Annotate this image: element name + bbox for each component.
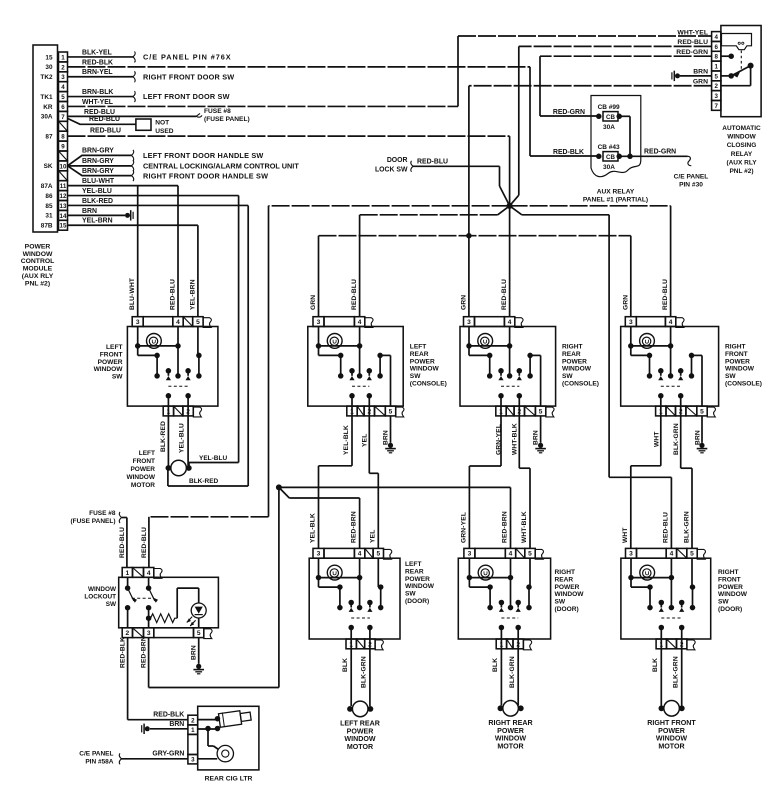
svg-text:FRONT: FRONT [725, 351, 748, 358]
wire RED-BLU fuse #8 to lockout sw pin1 [119, 512, 127, 568]
svg-text:9: 9 [61, 143, 65, 150]
svg-text:WINDOW: WINDOW [94, 366, 124, 373]
bus RED-BLU junction to RF door switch pin4 [510, 206, 672, 549]
svg-text:BLK-RED: BLK-RED [160, 421, 167, 452]
svg-text:RED-BLU: RED-BLU [141, 527, 148, 558]
svg-text:WINDOW: WINDOW [344, 735, 375, 743]
wire BRN RR console pin5 to ground [533, 416, 546, 453]
wire BRN RF console pin5 to ground [695, 416, 708, 453]
wire RED-GRN CB#43 output to C/E panel pin #30 [619, 149, 691, 166]
switch RIGHT REAR POWER WINDOW SW (CONSOLE) [460, 317, 556, 417]
svg-text:BRN: BRN [695, 430, 702, 445]
svg-text:1: 1 [715, 63, 719, 70]
svg-text:7: 7 [61, 114, 65, 121]
lockout switch LED D1 [177, 588, 206, 628]
label RIGHT FRONT DOOR SW [143, 72, 234, 81]
svg-text:5: 5 [700, 408, 704, 415]
svg-text:YEL-BRN: YEL-BRN [189, 279, 196, 310]
svg-text:3: 3 [317, 551, 321, 558]
svg-text:GRN: GRN [693, 79, 708, 86]
svg-text:BLK-GRN: BLK-GRN [509, 656, 516, 688]
svg-text:RED-BLU: RED-BLU [662, 279, 669, 310]
svg-text:4: 4 [508, 319, 512, 326]
svg-text:30A: 30A [41, 114, 53, 121]
caption LEFT REAR POWER WINDOW SW (DOOR) [405, 561, 435, 605]
svg-text:RED-BLU: RED-BLU [351, 279, 358, 310]
svg-text:3: 3 [629, 319, 633, 326]
label RED-GRN at CB#99 input [553, 109, 585, 116]
lockout switch resistor R1 [149, 614, 178, 623]
svg-text:2: 2 [61, 64, 65, 71]
svg-text:5: 5 [528, 551, 532, 558]
label RED-BLK at CB#43 input [553, 149, 584, 156]
wire GRY-GRN C/E panel pin #58A to cig lighter pin3 [119, 751, 188, 765]
wire GRN relay pin2 to console switch bus [466, 79, 711, 317]
svg-text:RIGHT FRONT DOOR SW: RIGHT FRONT DOOR SW [143, 72, 234, 81]
bus RED-BLU junction right to RF console switch pin4 [510, 206, 671, 317]
NOT USED box and label [136, 119, 174, 135]
svg-text:30: 30 [45, 64, 53, 71]
svg-text:12: 12 [60, 193, 67, 200]
svg-text:WHT-YEL: WHT-YEL [677, 29, 708, 36]
wire YEL-BLU LF switch pin2 to LF motor [178, 416, 188, 466]
wire WHT-YEL module pin6 to relay pin4 [68, 36, 712, 106]
wire RED-BLU door lock sw to junction node [411, 159, 510, 206]
wire RED-BLU module pin7 to fuse #8 [68, 109, 197, 117]
svg-text:5: 5 [376, 551, 380, 558]
lockout switch contacts [125, 577, 158, 628]
svg-text:WINDOW: WINDOW [410, 366, 440, 373]
wire BRN-BLK module pin5 to left front door sw [68, 89, 136, 102]
svg-text:BRN: BRN [169, 721, 184, 728]
svg-text:3: 3 [629, 551, 633, 558]
svg-text:RED-BLK: RED-BLK [82, 59, 113, 66]
svg-text:5: 5 [197, 630, 201, 637]
wire RED-GRN relay pin8 to CB#99 [540, 49, 712, 116]
svg-text:CLOSING: CLOSING [727, 142, 757, 149]
svg-text:RED-BRN: RED-BRN [351, 511, 358, 543]
svg-text:MOTOR: MOTOR [131, 482, 155, 489]
svg-text:FUSE #8: FUSE #8 [204, 108, 231, 115]
svg-text:BLK-RED: BLK-RED [82, 198, 113, 205]
circuit breaker CB #99 30A [596, 104, 622, 131]
fuse #8 arrow and label FUSE #8 (FUSE PANEL) [196, 108, 250, 123]
svg-text:RIGHT REAR: RIGHT REAR [488, 719, 532, 727]
svg-text:(DOOR): (DOOR) [555, 606, 579, 613]
module terminal labels 15/30/TK2/TK1/KR/30A/87/SK/87A/86/85/31/87B [40, 54, 53, 229]
svg-text:1: 1 [191, 727, 195, 734]
svg-text:BLU-WHT: BLU-WHT [82, 178, 115, 185]
svg-text:WINDOW: WINDOW [656, 735, 687, 743]
svg-text:FRONT: FRONT [718, 576, 741, 583]
svg-text:RIGHT FRONT: RIGHT FRONT [647, 719, 696, 727]
svg-text:TK2: TK2 [40, 74, 53, 81]
svg-text:LEFT: LEFT [106, 344, 122, 351]
svg-text:RED-GRN: RED-GRN [644, 149, 676, 156]
motor M3 RIGHT REAR POWER WINDOW MOTOR [498, 701, 524, 717]
svg-text:31: 31 [45, 213, 53, 220]
label DOOR LOCK SW [375, 157, 408, 173]
svg-text:4: 4 [176, 319, 180, 326]
svg-text:13: 13 [60, 203, 67, 210]
svg-text:5: 5 [389, 408, 393, 415]
wire RED-BRN node to RR door pin4 [279, 487, 511, 548]
svg-text:WINDOW: WINDOW [495, 735, 526, 743]
svg-text:SW: SW [106, 601, 117, 608]
svg-text:POWER: POWER [410, 358, 435, 365]
svg-text:3: 3 [467, 319, 471, 326]
svg-text:REAR: REAR [562, 351, 581, 358]
svg-text:5: 5 [61, 94, 65, 101]
svg-text:(DOOR): (DOOR) [718, 606, 742, 613]
svg-text:CB #43: CB #43 [598, 144, 620, 151]
svg-text:YEL-BLK: YEL-BLK [343, 425, 350, 455]
svg-text:REAR: REAR [555, 576, 574, 583]
svg-text:C/E PANEL: C/E PANEL [674, 174, 709, 181]
svg-text:BRN: BRN [533, 430, 540, 445]
svg-text:RIGHT: RIGHT [555, 569, 576, 576]
svg-text:85: 85 [45, 203, 53, 210]
aux relay panel #1 (partial) outline [591, 96, 641, 177]
svg-text:YEL-BRN: YEL-BRN [82, 218, 113, 225]
svg-text:2: 2 [126, 630, 130, 637]
svg-text:(CONSOLE): (CONSOLE) [725, 381, 762, 388]
svg-text:WINDOW: WINDOW [725, 366, 755, 373]
svg-text:15: 15 [60, 223, 67, 230]
svg-text:4: 4 [669, 319, 673, 326]
svg-text:BLK-RED: BLK-RED [189, 478, 219, 485]
relay contact and switch arm [721, 51, 754, 86]
svg-text:RED-BLU: RED-BLU [677, 39, 708, 46]
labels BLU-WHT RED-BLU YEL-BRN above LF switch [129, 278, 196, 310]
svg-text:BRN-GRY: BRN-GRY [82, 168, 114, 175]
svg-text:KR: KR [43, 104, 53, 111]
svg-text:BLK-GRN: BLK-GRN [672, 656, 679, 688]
svg-text:RED-BLU: RED-BLU [89, 116, 120, 123]
svg-text:WINDOW: WINDOW [23, 251, 53, 258]
svg-text:RELAY: RELAY [731, 151, 753, 158]
svg-text:POWER: POWER [658, 727, 685, 735]
switch LEFT REAR POWER WINDOW SW (DOOR) [309, 548, 400, 649]
labels GRN RED-BLU above RR console switch [461, 279, 509, 310]
svg-text:15: 15 [45, 54, 53, 61]
svg-text:YEL-BLU: YEL-BLU [178, 423, 185, 453]
svg-text:(FUSE PANEL): (FUSE PANEL) [70, 518, 115, 525]
window lockout switch S1 [119, 568, 219, 639]
svg-text:1: 1 [61, 54, 65, 61]
label BLK-RED at LF motor return [189, 478, 219, 485]
svg-text:POWER: POWER [725, 358, 750, 365]
svg-text:TK1: TK1 [40, 94, 53, 101]
wire WHT-BLK RR console pin2 to RR door pin5 [511, 416, 530, 549]
svg-text:POWER: POWER [562, 358, 587, 365]
wire BRN lockout pin5 to ground [191, 638, 204, 674]
wire BLK-RED LF switch pin1 to LF motor [160, 416, 169, 466]
svg-text:11: 11 [60, 183, 67, 190]
svg-text:POWER: POWER [25, 244, 51, 251]
svg-text:WINDOW: WINDOW [405, 583, 435, 590]
svg-text:SW: SW [725, 373, 736, 380]
labels WHT RED-BLU BLK-GRN above RF door switch [622, 511, 691, 543]
wire BLK-GRN RF console pin2 to RF door pin5 [673, 416, 692, 549]
svg-text:RED-GRN: RED-GRN [553, 109, 585, 116]
svg-text:RIGHT: RIGHT [718, 569, 739, 576]
svg-text:PIN #58A: PIN #58A [85, 759, 113, 766]
svg-text:2: 2 [715, 83, 719, 90]
caption RIGHT REAR POWER WINDOW MOTOR [488, 719, 532, 750]
wire RED-BRN lockout pin3 to door switch pin4 node [140, 487, 279, 687]
svg-text:87A: 87A [41, 183, 53, 190]
svg-text:C/E PANEL PIN #76X: C/E PANEL PIN #76X [143, 53, 232, 62]
svg-text:POWER: POWER [555, 584, 580, 591]
svg-text:WHT-YEL: WHT-YEL [82, 99, 113, 106]
junction node (RED-BLU distribution) [507, 203, 513, 209]
svg-text:RED-BLU: RED-BLU [90, 127, 121, 134]
label C/E PANEL PIN #58A [79, 751, 114, 766]
svg-text:8: 8 [61, 134, 65, 141]
module pin boxes 1-15 [59, 52, 68, 230]
svg-text:BLK-YEL: BLK-YEL [82, 49, 112, 56]
svg-text:FUSE #8: FUSE #8 [89, 510, 116, 517]
caption AUX RELAY PANEL #1 (PARTIAL) [583, 189, 648, 204]
svg-text:SW: SW [555, 599, 566, 606]
svg-text:LEFT REAR: LEFT REAR [340, 720, 380, 728]
wire RED-BLU module pin8 (87) to junction node [68, 127, 510, 206]
svg-text:BLK: BLK [492, 658, 499, 672]
svg-text:(DOOR): (DOOR) [405, 598, 429, 605]
wire BLU-WHT / RED-BLU module pin11 (87A) to LF switch pins 3 and 4 [68, 178, 179, 317]
caption RIGHT REAR POWER WINDOW SW (DOOR) [555, 569, 585, 613]
svg-text:3: 3 [317, 319, 321, 326]
svg-text:YEL-BLU: YEL-BLU [199, 455, 227, 462]
wire YEL-BRN module pin15 (87B) to LF switch pin5 [68, 218, 198, 317]
label FUSE #8 (FUSE PANEL) lower left [70, 510, 115, 525]
motor M2 LEFT REAR POWER WINDOW MOTOR [347, 701, 373, 717]
svg-text:3: 3 [136, 319, 140, 326]
caption RIGHT FRONT POWER WINDOW MOTOR [647, 719, 696, 750]
svg-text:PNL #2): PNL #2) [25, 280, 50, 287]
wire WHT RF console pin1 to RF door pin3 [631, 416, 661, 549]
svg-text:30A: 30A [603, 124, 615, 131]
svg-text:WINDOW: WINDOW [88, 586, 117, 593]
svg-text:86: 86 [45, 193, 53, 200]
power window control module connector block [33, 45, 58, 232]
wire BLK-GRN RR door pin2 to RR motor [509, 649, 518, 706]
svg-text:SW: SW [718, 599, 729, 606]
caption WINDOW LOCKOUT SW [84, 586, 117, 608]
caption LEFT FRONT POWER WINDOW SW [94, 344, 124, 381]
node RED-BRN distribution dot [276, 484, 282, 490]
svg-text:4: 4 [715, 34, 719, 41]
svg-text:DOOR: DOOR [387, 157, 408, 164]
svg-text:LOCK SW: LOCK SW [375, 166, 408, 173]
svg-text:WHT: WHT [622, 527, 629, 543]
svg-text:BLU-WHT: BLU-WHT [129, 278, 136, 310]
svg-text:BRN-GRY: BRN-GRY [82, 158, 114, 165]
svg-text:BRN: BRN [82, 208, 97, 215]
svg-text:RED-GRN: RED-GRN [676, 49, 708, 56]
rear cigarette lighter body [188, 706, 259, 770]
svg-text:GRN: GRN [461, 295, 468, 310]
svg-text:PIN #30: PIN #30 [679, 182, 703, 189]
svg-text:WINDOW: WINDOW [126, 474, 155, 481]
svg-text:CB: CB [606, 154, 615, 161]
caption RIGHT FRONT POWER WINDOW SW (DOOR) [718, 569, 748, 613]
svg-text:(AUX RLY: (AUX RLY [22, 273, 54, 280]
caption LEFT FRONT POWER WINDOW MOTOR [126, 450, 155, 489]
svg-text:LEFT: LEFT [405, 561, 421, 568]
caption RIGHT REAR POWER WINDOW SW (CONSOLE) [562, 344, 599, 388]
svg-text:GRN-YEL: GRN-YEL [495, 424, 502, 455]
wire WHT-YEL label at relay pin4 [677, 29, 708, 36]
svg-text:3: 3 [715, 93, 719, 100]
svg-text:POWER: POWER [718, 584, 743, 591]
caption LEFT REAR POWER WINDOW SW (CONSOLE) [410, 344, 447, 388]
wire RED-BLK lockout pin2 to cig lighter pin2 [119, 637, 187, 720]
svg-text:10: 10 [60, 163, 67, 170]
svg-text:5: 5 [539, 408, 543, 415]
svg-text:3: 3 [147, 630, 151, 637]
svg-text:MODULE: MODULE [23, 266, 53, 273]
svg-text:CB: CB [606, 114, 615, 121]
wire BLK-RED module pin13 (85) to LF motor [68, 198, 249, 486]
switch LEFT REAR POWER WINDOW SW (CONSOLE) [308, 317, 404, 417]
svg-text:87: 87 [45, 133, 53, 140]
svg-text:POWER: POWER [347, 727, 374, 735]
bus GRN console switches pin3 [319, 236, 631, 317]
caption LEFT REAR POWER WINDOW MOTOR [340, 720, 380, 751]
labels YEL-BLK RED-BRN YEL above LR door switch [309, 511, 376, 543]
svg-text:WHT: WHT [653, 431, 660, 447]
svg-text:3: 3 [191, 757, 195, 764]
svg-text:POWER: POWER [405, 576, 430, 583]
svg-text:SW: SW [410, 373, 421, 380]
wire BLK LR door pin1 to LR motor [342, 649, 351, 706]
wire RED-BLU relay pin6 to junction node [510, 39, 712, 206]
svg-text:MOTOR: MOTOR [347, 743, 373, 751]
svg-text:BLK-GRN: BLK-GRN [684, 511, 691, 543]
svg-text:FRONT: FRONT [100, 351, 123, 358]
wire BLK RR door pin1 to RR motor [492, 649, 501, 706]
wire BRN-YEL module pin3 to right front door sw [68, 69, 136, 82]
svg-text:RED-BLU: RED-BLU [501, 279, 508, 310]
svg-text:SK: SK [44, 163, 53, 170]
svg-text:4: 4 [670, 551, 674, 558]
labels GRN-YEL RED-BRN WHT-BLK above RR door switch [460, 511, 528, 543]
relay coil [722, 34, 752, 50]
wire YEL LR console pin2 to LR door pin5 [361, 416, 378, 549]
svg-text:4: 4 [61, 84, 65, 91]
svg-text:YEL-BLK: YEL-BLK [309, 513, 316, 543]
circuit breaker CB #43 30A [596, 144, 622, 171]
wires BRN-GRY module pin10 fan to door handle switches / alarm unit [68, 148, 134, 182]
svg-text:BRN: BRN [693, 69, 708, 76]
svg-text:BLK: BLK [342, 658, 349, 672]
svg-text:3: 3 [61, 74, 65, 81]
svg-text:RED-BLU: RED-BLU [417, 159, 448, 166]
cig lighter plug element [198, 709, 252, 732]
module caption POWER WINDOW CONTROL MODULE (AUX RLY PNL #2) [21, 244, 55, 288]
svg-text:RED-BLK: RED-BLK [153, 712, 184, 719]
svg-text:87B: 87B [41, 223, 53, 230]
svg-text:CONTROL: CONTROL [21, 258, 55, 265]
svg-text:4: 4 [509, 551, 513, 558]
wire BRN LR console pin5 to ground [383, 416, 396, 453]
svg-text:14: 14 [60, 213, 67, 220]
svg-text:BRN-YEL: BRN-YEL [82, 69, 113, 76]
svg-text:LEFT: LEFT [139, 450, 155, 457]
svg-text:GRY-GRN: GRY-GRN [152, 751, 184, 758]
svg-text:1: 1 [126, 570, 130, 577]
wire BLK-GRN RF door pin2 to RF motor [672, 649, 681, 706]
labels GRN RED-BLU above RF console switch [622, 279, 669, 310]
label YEL-BLU at LF motor output [199, 455, 227, 462]
automatic window closing relay U1 body [721, 26, 761, 117]
labels door handle sw / central locking unit [143, 151, 299, 180]
svg-text:6: 6 [715, 44, 719, 51]
svg-text:BRN-GRY: BRN-GRY [82, 148, 114, 155]
svg-text:RIGHT FRONT DOOR HANDLE SW: RIGHT FRONT DOOR HANDLE SW [143, 171, 268, 180]
svg-text:WINDOW: WINDOW [562, 366, 592, 373]
wire YEL-BLU module pin12 (86) to LF motor [68, 188, 239, 466]
svg-text:BLK-GRN: BLK-GRN [361, 656, 368, 688]
svg-text:WINDOW: WINDOW [718, 591, 748, 598]
svg-text:5: 5 [196, 319, 200, 326]
svg-text:RED-BRN: RED-BRN [140, 636, 147, 668]
svg-text:BLK: BLK [652, 658, 659, 672]
svg-text:6: 6 [61, 104, 65, 111]
svg-text:CENTRAL LOCKING/ALARM CONTROL: CENTRAL LOCKING/ALARM CONTROL UNIT [143, 161, 299, 170]
switch RIGHT FRONT POWER WINDOW SW (CONSOLE) [621, 317, 719, 417]
wire RED-BLK module pin2 to CB#43 [68, 59, 597, 156]
wire BRN module pin14 (31) to chassis ground [68, 208, 134, 221]
svg-text:RED-BLK: RED-BLK [119, 637, 126, 668]
svg-text:8: 8 [715, 54, 719, 61]
caption REAR CIG LTR [205, 776, 253, 783]
svg-text:BRN-BLK: BRN-BLK [82, 89, 113, 96]
svg-text:YEL: YEL [370, 530, 377, 543]
switch RIGHT REAR POWER WINDOW SW (DOOR) [458, 548, 550, 649]
svg-text:RED-BLU: RED-BLU [84, 109, 115, 116]
svg-text:3: 3 [468, 551, 472, 558]
wire BRN ground to cig lighter pin1 [142, 721, 188, 734]
svg-text:2: 2 [191, 717, 195, 724]
svg-text:4: 4 [147, 570, 151, 577]
wire BLK-YEL module pin1 to C/E panel pin #76X [68, 49, 136, 62]
bus RED-BLU junction down to RR console switch pin4 [509, 206, 511, 317]
wire RED-BRN node to LR door pin4 [279, 487, 360, 548]
wire BLK RF door pin1 to RF motor [652, 649, 661, 706]
svg-text:WHT-BLK: WHT-BLK [521, 511, 528, 543]
svg-text:AUTOMATIC: AUTOMATIC [722, 125, 761, 132]
svg-text:YEL-BLU: YEL-BLU [82, 188, 112, 195]
cig lighter lamp element [198, 729, 234, 762]
svg-text:WINDOW: WINDOW [555, 591, 585, 598]
label RED-BLU at lockout pin4 feed [141, 527, 148, 558]
svg-text:MOTOR: MOTOR [497, 742, 523, 750]
svg-text:BLK-GRN: BLK-GRN [673, 423, 680, 455]
motor M1 LEFT FRONT POWER WINDOW MOTOR [166, 460, 192, 476]
svg-text:NOT: NOT [155, 120, 169, 127]
wire YEL-BLK LR console pin1 to LR door pin3 [319, 416, 353, 549]
switch RIGHT FRONT POWER WINDOW SW (DOOR) [621, 548, 711, 649]
wire BLK-GRN LR door pin2 to LR motor [361, 649, 370, 706]
svg-text:REAR: REAR [410, 351, 429, 358]
svg-text:SW: SW [405, 591, 416, 598]
svg-text:RIGHT: RIGHT [562, 344, 583, 351]
svg-text:YEL: YEL [361, 434, 368, 447]
svg-text:GRN: GRN [622, 295, 629, 310]
